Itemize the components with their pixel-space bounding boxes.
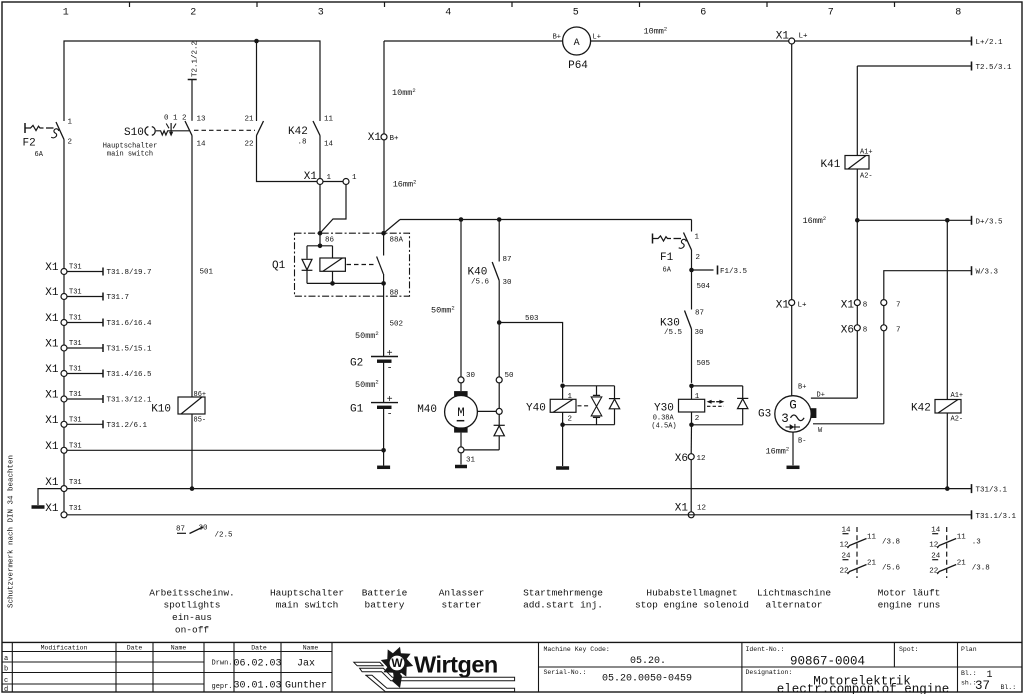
svg-text:16mm2: 16mm2 (766, 445, 790, 456)
svg-text:Jax: Jax (297, 659, 315, 670)
connector X1 T31 row (T31.3/12.1) (45, 390, 152, 405)
svg-text:3: 3 (318, 8, 324, 19)
svg-text:starter: starter (442, 600, 482, 611)
svg-text:2: 2 (190, 8, 196, 19)
svg-text:8: 8 (863, 327, 868, 335)
relay Q1 enclosure (dash-dot) (272, 233, 410, 296)
svg-text:Ident-No.:: Ident-No.: (746, 646, 785, 653)
svg-text:alternator: alternator (765, 600, 822, 611)
svg-text:/5.6: /5.6 (882, 565, 901, 573)
svg-text:T2.1/2.2: T2.1/2.2 (192, 41, 200, 77)
svg-text:87: 87 (695, 310, 704, 318)
svg-text:T31: T31 (69, 340, 82, 348)
svg-text:T31: T31 (69, 366, 82, 374)
svg-text:Startmehrmenge: Startmehrmenge (523, 587, 603, 598)
svg-text:c: c (4, 677, 8, 685)
svg-text:-: - (387, 409, 393, 420)
svg-text:X1: X1 (45, 364, 59, 376)
svg-text:22: 22 (840, 568, 849, 576)
svg-text:X1: X1 (45, 503, 59, 515)
svg-text:Bl.:: Bl.: (1001, 684, 1017, 691)
svg-text:stop engine solenoid: stop engine solenoid (635, 600, 749, 611)
svg-text:16mm2: 16mm2 (393, 178, 417, 189)
svg-text:add.start inj.: add.start inj. (523, 600, 603, 611)
connector X1 T31 row (T31.2/6.1) (45, 415, 147, 430)
svg-text:50: 50 (505, 372, 515, 380)
motor side tap and connector (477, 383, 502, 415)
connectors X1-7 / X6-7 (W line) (881, 300, 901, 424)
row 8 rail X1 T31 to battery minus (67, 449, 384, 451)
battery G2 (350, 349, 398, 403)
svg-text:21: 21 (244, 116, 254, 124)
relay coil K42 (911, 220, 963, 488)
solenoid Y30 stop engine (651, 384, 742, 431)
ident number field (746, 646, 866, 669)
svg-text:1: 1 (68, 119, 73, 127)
svg-text:T31: T31 (69, 416, 82, 424)
svg-text:2: 2 (68, 139, 73, 147)
svg-text:Modification: Modification (41, 645, 88, 652)
svg-text:Q1: Q1 (272, 260, 286, 272)
svg-text:37: 37 (975, 679, 990, 693)
svg-text:2: 2 (568, 416, 573, 424)
freewheel diode at starter (465, 414, 505, 450)
svg-text:T2.5/3.1: T2.5/3.1 (976, 64, 1013, 72)
svg-text:0.38A: 0.38A (653, 415, 675, 423)
svg-text:5: 5 (573, 8, 579, 19)
machine key code field (544, 646, 667, 667)
svg-text:10mm2: 10mm2 (392, 87, 416, 98)
svg-text:87: 87 (176, 526, 185, 534)
svg-text:W: W (391, 656, 403, 670)
svg-text:X1: X1 (45, 441, 59, 453)
svg-text:1: 1 (568, 393, 573, 401)
svg-text:Serial-No.:: Serial-No.: (544, 669, 587, 676)
svg-text:Lichtmaschine: Lichtmaschine (757, 587, 831, 598)
wire jog Q1-88A to main distribution rail (385, 220, 692, 233)
svg-text:88: 88 (390, 290, 399, 298)
svg-text:85-: 85- (194, 417, 207, 425)
svg-text:main switch: main switch (276, 600, 339, 611)
svg-text:T31/3.1: T31/3.1 (976, 487, 1008, 495)
svg-text:505: 505 (697, 360, 711, 368)
svg-text:A: A (574, 38, 580, 49)
G3 D+ tap (811, 397, 857, 399)
svg-text:X1: X1 (45, 390, 59, 402)
svg-text:A2-: A2- (951, 416, 964, 424)
Wirtgen logo (354, 647, 515, 692)
Y30 flyback diode (737, 398, 748, 408)
svg-text:P64: P64 (568, 60, 588, 72)
alternator G3 (758, 384, 825, 446)
svg-text:a: a (4, 655, 8, 663)
svg-text:L+/2.1: L+/2.1 (976, 39, 1004, 47)
svg-text:K30: K30 (660, 318, 680, 330)
svg-text:87: 87 (503, 256, 512, 264)
svg-text:T31: T31 (69, 289, 82, 297)
svg-text:K42: K42 (911, 403, 931, 415)
svg-text:T31: T31 (69, 479, 82, 487)
svg-text:F1/3.5: F1/3.5 (720, 268, 748, 276)
svg-text:11: 11 (957, 534, 967, 542)
svg-text:7: 7 (896, 302, 901, 310)
svg-text:Hubabstellmagnet: Hubabstellmagnet (646, 587, 737, 598)
svg-text:Hauptschalter: Hauptschalter (270, 587, 344, 598)
svg-text:Motor läuft: Motor läuft (878, 587, 941, 598)
svg-text:14: 14 (324, 141, 334, 149)
K41 contact cross-reference (840, 527, 901, 579)
svg-text:X1: X1 (45, 287, 59, 299)
svg-text:Plan: Plan (961, 646, 977, 653)
svg-text:11: 11 (867, 534, 877, 542)
svg-text:12: 12 (840, 542, 849, 550)
svg-text:X1: X1 (776, 300, 790, 312)
svg-text:b: b (4, 666, 8, 674)
node F1 output with terminal F1/3.5 (689, 250, 747, 310)
Q1 internal wiring (307, 233, 384, 286)
wire & terminal D+/3.5 (803, 215, 1004, 227)
motor M40 starter (417, 383, 477, 447)
svg-text:1: 1 (63, 8, 69, 19)
battery negative junction and ground (377, 448, 390, 467)
svg-text:X1: X1 (368, 132, 382, 144)
svg-text:05.20.: 05.20. (630, 656, 666, 667)
vertical note: Schutzvermerk nach DIN 34 beachten (8, 455, 16, 608)
rail T31.1/3.1 (67, 510, 1017, 521)
svg-text:W/3.3: W/3.3 (976, 269, 999, 277)
svg-text:88A: 88A (390, 237, 404, 245)
svg-text:X1: X1 (45, 477, 59, 489)
svg-text:7: 7 (896, 327, 901, 335)
connector X1 T31 row 10 (45, 503, 81, 518)
junction on top rail at column 21/22 (254, 39, 259, 121)
relay coil K10 (151, 391, 206, 489)
svg-text:Arbeitsscheinw.: Arbeitsscheinw. (149, 587, 235, 598)
svg-text:X1: X1 (45, 313, 59, 325)
svg-text:G: G (789, 399, 797, 413)
ruler ticks and column numbers (63, 2, 962, 19)
svg-text:X1: X1 (45, 339, 59, 351)
connector terminal 31 and ground (455, 447, 476, 467)
wire K41 A2- down to D+ rail (856, 169, 858, 220)
serial number field (544, 669, 693, 685)
relay contact K42 .8 (11/14) (288, 116, 334, 149)
svg-text:X6: X6 (675, 453, 688, 465)
legend function labels (149, 587, 940, 635)
svg-text:A1+: A1+ (860, 149, 873, 157)
svg-text:21: 21 (957, 560, 967, 568)
svg-text:Date: Date (251, 645, 267, 652)
connector X1 T31 row 8 (45, 441, 81, 454)
svg-text:/3.8: /3.8 (882, 539, 900, 547)
svg-text:main switch: main switch (107, 150, 153, 158)
svg-text:/2.5: /2.5 (215, 532, 234, 540)
svg-text:T31: T31 (69, 315, 82, 323)
svg-text:spotlights: spotlights (163, 600, 220, 611)
battery G1 (350, 395, 398, 450)
svg-text:B+: B+ (390, 135, 400, 143)
svg-text:electr.compon.of engine: electr.compon.of engine (777, 683, 950, 694)
svg-text:10mm2: 10mm2 (644, 25, 668, 36)
svg-text:11: 11 (324, 116, 334, 124)
svg-text:Spot:: Spot: (899, 646, 919, 653)
svg-text:T31.8/19.7: T31.8/19.7 (107, 269, 152, 277)
connector X6 12 (675, 425, 706, 465)
wire X6-12 down to X1-12 (690, 460, 692, 512)
svg-text:30: 30 (199, 525, 209, 533)
svg-text:d: d (4, 686, 8, 694)
connector X1 T31 row (T31.4/16.5) (45, 364, 152, 379)
svg-text:G3: G3 (758, 409, 771, 421)
svg-text:D+/3.5: D+/3.5 (976, 218, 1004, 226)
svg-text:7: 7 (828, 8, 834, 19)
svg-text:T31.7: T31.7 (107, 294, 130, 302)
svg-text:16mm2: 16mm2 (803, 215, 827, 226)
wire: left rail down from F2 (63, 140, 65, 515)
svg-text:05.20.0050-0459: 05.20.0050-0459 (602, 674, 692, 685)
connector X1 T31 row (T31.6/16.4) (45, 313, 152, 328)
relay coil K41 (821, 149, 873, 181)
svg-text:31: 31 (466, 457, 476, 465)
svg-text:(4.5A): (4.5A) (651, 423, 676, 431)
svg-text:+: + (387, 395, 393, 406)
wire 505 (692, 329, 711, 383)
G3 B- ground (766, 432, 800, 467)
wire: top rail right segment through ammeter (384, 41, 972, 134)
svg-text:50mm2: 50mm2 (355, 330, 379, 341)
svg-text:1: 1 (695, 234, 700, 242)
wire X1-1 jog to Q1 pin 86 (320, 185, 346, 234)
Y40 flyback diode (609, 399, 620, 409)
svg-text:T31.4/16.5: T31.4/16.5 (107, 371, 153, 379)
svg-text:T31: T31 (69, 264, 82, 272)
svg-text:0 1 2: 0 1 2 (164, 115, 187, 123)
svg-text:22: 22 (244, 141, 253, 149)
svg-text:12: 12 (697, 455, 706, 463)
svg-text:/5.6: /5.6 (471, 279, 490, 287)
svg-text:Y40: Y40 (526, 403, 546, 415)
svg-text:X1: X1 (776, 31, 790, 43)
svg-text:8: 8 (955, 8, 961, 19)
svg-text:X1: X1 (675, 503, 689, 515)
svg-text:Date: Date (127, 645, 143, 652)
rail T31/3.1 with left ground (32, 484, 1008, 507)
svg-text:2: 2 (696, 254, 701, 262)
svg-text:B+: B+ (553, 34, 561, 42)
spot field (899, 646, 919, 653)
svg-text:90867-0004: 90867-0004 (790, 655, 865, 669)
svg-text:battery: battery (365, 600, 405, 611)
svg-text:50mm2: 50mm2 (431, 304, 455, 315)
svg-text:8: 8 (863, 302, 868, 310)
svg-text:.8: .8 (298, 139, 307, 147)
svg-text:B-: B- (798, 438, 806, 446)
svg-text:Bl.:: Bl.: (961, 670, 977, 677)
relay contact K40 /5.6 (87/30) (468, 217, 513, 287)
svg-text:50mm2: 50mm2 (355, 379, 379, 390)
svg-text:Name: Name (303, 645, 319, 652)
svg-text:30: 30 (695, 329, 705, 337)
svg-text:L+: L+ (798, 302, 808, 310)
terminal T2.1/2.2 (188, 41, 200, 121)
Q1 coil (320, 258, 346, 271)
svg-text:ein-aus: ein-aus (172, 612, 212, 623)
svg-text:1: 1 (327, 174, 332, 182)
svg-text:504: 504 (697, 283, 711, 291)
svg-text:Anlasser: Anlasser (439, 587, 485, 598)
svg-text:Drwn.: Drwn. (212, 660, 233, 668)
svg-text:3: 3 (781, 412, 789, 426)
svg-text:T31.6/16.4: T31.6/16.4 (107, 320, 153, 328)
connector X1 pin 1 (double) (304, 171, 357, 185)
svg-text:Designation:: Designation: (746, 669, 793, 676)
svg-text:30: 30 (466, 372, 476, 380)
designation field (746, 669, 950, 694)
svg-text:X1: X1 (841, 300, 855, 312)
connector X1 T31 row (T31.7) (45, 287, 129, 302)
svg-text:1: 1 (695, 393, 700, 401)
relay contact K30 /5.5 (87/30) (660, 310, 704, 338)
svg-text:6: 6 (700, 8, 706, 19)
svg-text:Schutzvermerk nach DIN 34 beac: Schutzvermerk nach DIN 34 beachten (8, 455, 16, 608)
wire contact 14 down to X1-1 (319, 136, 321, 179)
wire 501 (192, 136, 214, 398)
Y40 ground (556, 425, 569, 468)
svg-text:X1: X1 (45, 262, 59, 274)
svg-text:G1: G1 (350, 404, 364, 416)
svg-text:-: - (387, 363, 393, 374)
connector X1 B+ (368, 87, 417, 190)
wire & terminal W/3.3 (884, 266, 999, 299)
Q1 suppressor diode (302, 259, 313, 270)
circuit breaker F2 6A (23, 119, 73, 160)
connector X1 T31 row (T31.5/15.1) (45, 339, 152, 354)
svg-text:K40: K40 (468, 267, 488, 279)
svg-text:G2: G2 (350, 358, 363, 370)
wire Q1-88 down to battery (355, 283, 403, 356)
svg-text:Hauptschalter: Hauptschalter (103, 142, 158, 150)
svg-text:4: 4 (445, 8, 451, 19)
revision table texts (4, 645, 327, 694)
svg-text:X1: X1 (45, 415, 59, 427)
svg-text:6A: 6A (663, 267, 672, 275)
svg-text:A2-: A2- (860, 173, 873, 181)
svg-text:/3.8: /3.8 (972, 565, 990, 573)
svg-text:T31: T31 (69, 442, 82, 450)
connector X1 L+ (alternator feed) (776, 44, 807, 396)
connector X1 T31 row (T31.8/19.7) (45, 262, 151, 277)
svg-text:on-off: on-off (175, 625, 210, 636)
svg-text:30.01.03: 30.01.03 (233, 681, 281, 692)
connectors X1-8 / X6-8 (D+ line) (841, 220, 868, 398)
svg-text:M40: M40 (417, 404, 437, 416)
wire 503 to Y40 (499, 315, 562, 383)
svg-text:T31.1/3.1: T31.1/3.1 (976, 513, 1017, 521)
terminal L+/2.1 (972, 37, 1004, 48)
svg-text:+: + (387, 349, 393, 360)
svg-text:501: 501 (200, 269, 214, 277)
circuit breaker F1 6A (653, 220, 701, 275)
svg-text:22: 22 (929, 568, 938, 576)
svg-text:F2: F2 (23, 138, 36, 150)
svg-text:W: W (818, 427, 823, 435)
svg-text:F1: F1 (660, 252, 674, 264)
svg-text:86: 86 (325, 237, 335, 245)
svg-text:L+: L+ (593, 34, 601, 42)
svg-text:B+: B+ (798, 384, 806, 392)
svg-text:Gunther: Gunther (285, 680, 327, 692)
svg-text:06.02.03: 06.02.03 (233, 659, 281, 670)
svg-text:2: 2 (695, 415, 700, 423)
connector X1 T31 row 9 (45, 477, 81, 492)
svg-text:L+: L+ (799, 33, 809, 41)
svg-text:14: 14 (197, 141, 207, 149)
svg-text:M: M (457, 406, 465, 420)
node starter feed 30 (431, 217, 463, 377)
ammeter P64 (553, 25, 668, 72)
contact 21/22 (244, 116, 263, 149)
svg-text:6A: 6A (35, 151, 44, 159)
svg-text:X6: X6 (841, 325, 854, 337)
plan field (961, 646, 1016, 693)
wire X1 B+ down to Q1 88A (383, 140, 385, 233)
svg-text:X1: X1 (304, 171, 318, 183)
svg-text:30: 30 (503, 279, 513, 287)
wire & terminal T2.5/3.1 (857, 62, 1012, 156)
node Q1 pin 86 (318, 231, 335, 245)
svg-text:K41: K41 (821, 159, 841, 171)
switch S10 Hauptschalter contact 13/14 (103, 116, 206, 159)
svg-text:.3: .3 (972, 539, 982, 547)
svg-text:gepr.: gepr. (212, 683, 233, 691)
svg-text:1: 1 (352, 174, 357, 182)
svg-text:K10: K10 (151, 404, 171, 416)
wire from contact 22 to connector X1-1 (257, 136, 317, 182)
svg-text:T31: T31 (69, 505, 82, 513)
svg-text:T31: T31 (69, 391, 82, 399)
Y40 suppressor (bidirectional) (578, 386, 602, 425)
node Q1 pin 88A (381, 231, 403, 245)
title block grid (2, 642, 1022, 692)
svg-text:Name: Name (171, 645, 187, 652)
svg-text:86+: 86+ (194, 391, 207, 399)
svg-text:K42: K42 (288, 126, 308, 138)
svg-text:12: 12 (697, 505, 706, 513)
svg-text:S10: S10 (124, 127, 144, 139)
svg-text:502: 502 (390, 321, 404, 329)
svg-text:13: 13 (197, 116, 207, 124)
svg-text:503: 503 (525, 315, 539, 323)
wire K40-30 down through node 503 (497, 281, 502, 377)
svg-text:T31.5/15.1: T31.5/15.1 (107, 346, 153, 354)
svg-text:T31.3/12.1: T31.3/12.1 (107, 397, 153, 405)
svg-text:A1+: A1+ (951, 392, 964, 400)
Q1 contact 88A/88 with actuator dashes (347, 233, 399, 297)
svg-text:12: 12 (929, 542, 938, 550)
S10 key actuator symbol (145, 115, 189, 137)
K42 contact cross-reference (929, 527, 990, 579)
svg-text:Machine Key Code:: Machine Key Code: (544, 646, 610, 653)
connector X1 12 on T31.1 rail (675, 503, 706, 518)
connector X1 L+ (top) (776, 31, 808, 45)
G3 W tap (811, 408, 884, 424)
Y30 adjustment arrows (707, 400, 725, 407)
svg-text:Y30: Y30 (654, 403, 674, 415)
svg-text:/5.5: /5.5 (664, 329, 683, 337)
svg-text:Wirtgen: Wirtgen (414, 652, 498, 678)
svg-text:21: 21 (867, 560, 877, 568)
connector terminal 30 (458, 372, 476, 383)
